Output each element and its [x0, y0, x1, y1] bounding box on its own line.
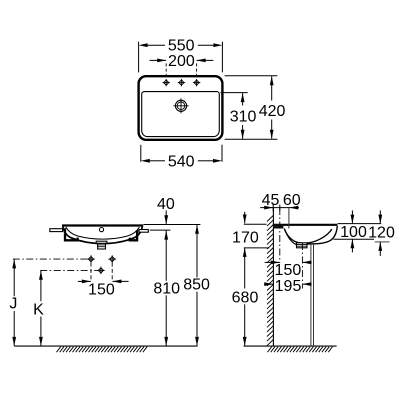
svg-text:420: 420 — [259, 103, 286, 120]
svg-text:170: 170 — [232, 230, 259, 247]
svg-text:J: J — [9, 295, 17, 312]
svg-text:150: 150 — [88, 282, 115, 299]
svg-text:195: 195 — [275, 278, 302, 295]
svg-text:150: 150 — [275, 262, 302, 279]
svg-text:540: 540 — [168, 153, 195, 170]
svg-text:310: 310 — [230, 108, 257, 125]
svg-text:200: 200 — [168, 53, 195, 70]
svg-text:K: K — [33, 302, 44, 319]
svg-text:120: 120 — [368, 225, 395, 242]
svg-text:810: 810 — [153, 280, 180, 297]
svg-text:680: 680 — [232, 289, 259, 306]
svg-text:100: 100 — [340, 224, 367, 241]
svg-text:850: 850 — [183, 277, 210, 294]
